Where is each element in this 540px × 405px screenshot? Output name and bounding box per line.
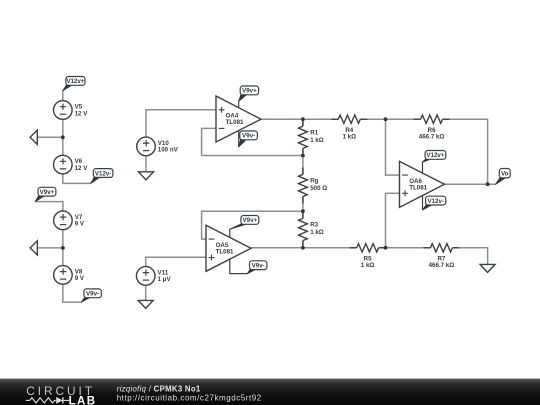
svg-text:V9v+: V9v+ [243,217,258,224]
svg-text:1 μV: 1 μV [158,276,172,283]
svg-text:1 kΩ: 1 kΩ [361,262,375,269]
svg-text:9 V: 9 V [75,275,85,282]
svg-text:12 V: 12 V [75,110,89,117]
svg-text:12 V: 12 V [75,165,89,172]
svg-text:R3: R3 [310,222,318,229]
svg-text:Rg: Rg [310,177,318,184]
svg-text:V12v-: V12v- [427,198,444,205]
svg-text:TL081: TL081 [216,248,234,255]
svg-text:TL081: TL081 [226,119,244,126]
svg-text:9 V: 9 V [75,221,85,228]
svg-text:100 nV: 100 nV [158,147,179,154]
svg-text:1 kΩ: 1 kΩ [310,137,324,144]
svg-text:V9v-: V9v- [86,291,99,298]
svg-text:V12v+: V12v+ [426,152,444,159]
svg-text:1 kΩ: 1 kΩ [343,134,357,141]
svg-text:R1: R1 [310,129,318,136]
svg-text:1 kΩ: 1 kΩ [310,229,324,236]
svg-text:V12v-: V12v- [95,170,112,177]
svg-text:LAB: LAB [69,395,97,405]
svg-text:V9v+: V9v+ [242,88,257,95]
svg-text:V9v-: V9v- [252,263,265,270]
svg-text:466.7 kΩ: 466.7 kΩ [429,262,455,269]
svg-text:V9v-: V9v- [242,133,255,140]
svg-text:rizqiofiq / CPMK3 No1: rizqiofiq / CPMK3 No1 [117,385,201,394]
svg-text:Vo: Vo [501,171,509,178]
svg-text:TL081: TL081 [409,184,427,191]
svg-text:V9v+: V9v+ [40,189,55,196]
svg-text:V12v+: V12v+ [66,78,84,85]
svg-text:http://circuitlab.com/c27kmgdc: http://circuitlab.com/c27kmgdc5rt92 [117,393,262,402]
svg-text:500 Ω: 500 Ω [310,185,327,192]
svg-text:466.7 kΩ: 466.7 kΩ [419,134,445,141]
